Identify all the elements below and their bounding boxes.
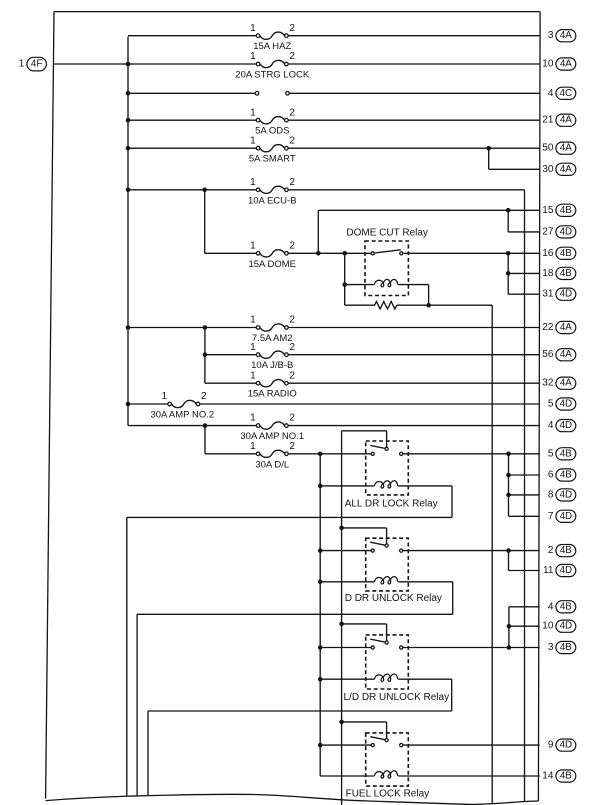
pin 7 (4D) [548, 510, 576, 522]
wire node up from DOME row [317, 210, 319, 253]
svg-text:31: 31 [542, 289, 554, 300]
pin 18 (4B) [542, 267, 576, 279]
pin 9 (4D) [548, 739, 576, 751]
fuse F5 10A ECU-B [248, 177, 297, 206]
wire DOME row left [205, 252, 257, 254]
svg-text:2: 2 [289, 441, 295, 452]
svg-text:21: 21 [542, 115, 554, 126]
svg-text:4B: 4B [560, 448, 572, 459]
svg-text:1: 1 [19, 59, 25, 70]
wire relay2 switch row left [320, 550, 371, 552]
pin 10 (4A) [542, 58, 576, 70]
svg-text:4B: 4B [560, 545, 572, 556]
bus relay feed vertical [341, 431, 343, 805]
svg-text:50: 50 [542, 143, 554, 154]
svg-text:2: 2 [289, 315, 295, 326]
relay K1 label [345, 499, 438, 510]
pin 22 (4A) [542, 321, 576, 333]
svg-text:7.5A AM2: 7.5A AM2 [252, 333, 293, 344]
svg-text:4A: 4A [560, 143, 572, 154]
relay U1 dashed outline [365, 241, 408, 296]
svg-text:15A HAZ: 15A HAZ [253, 41, 291, 52]
pin 27 (4D) [542, 226, 576, 238]
junction relay1 coil row [318, 484, 323, 489]
svg-text:22: 22 [542, 322, 554, 333]
junction bus/4C row [126, 91, 131, 96]
page border right [538, 12, 540, 801]
junction 10D row [507, 624, 512, 629]
junction ECU-B/DOME sub-bus [202, 188, 207, 193]
wire AM2 row left [128, 327, 256, 329]
svg-text:FUEL LOCK Relay: FUEL LOCK Relay [346, 788, 430, 799]
svg-text:5A ODS: 5A ODS [255, 126, 289, 137]
wire relay3 output [403, 647, 540, 649]
bus main vertical [127, 37, 129, 426]
svg-text:3: 3 [548, 30, 554, 41]
wire AMP2 row left [128, 403, 168, 405]
fuse F3 5A ODS [250, 107, 295, 136]
svg-text:15: 15 [542, 205, 554, 216]
svg-text:4B: 4B [560, 205, 572, 216]
svg-text:4C: 4C [560, 88, 573, 99]
wire AM2 row right [288, 327, 540, 329]
wire bus corner to AMP1 row [128, 425, 256, 427]
wire branch 4-3 [508, 607, 510, 648]
svg-text:4A: 4A [560, 164, 572, 175]
svg-text:2: 2 [548, 545, 554, 556]
relay K1 switch [370, 445, 403, 455]
svg-text:4D: 4D [560, 621, 573, 632]
wire relay4 feed drop [386, 722, 388, 739]
fuse F9 15A RADIO [248, 370, 297, 399]
svg-text:56: 56 [542, 349, 554, 360]
wire left loop2 down [136, 614, 138, 796]
svg-text:6: 6 [548, 470, 554, 481]
relay U1 switch contacts [371, 252, 403, 255]
svg-text:4B: 4B [560, 268, 572, 279]
junction relay3 feed [339, 622, 344, 627]
bus D/L vertical [319, 454, 321, 776]
relay K4 switch [370, 737, 403, 747]
junction JBB/sub-bus [203, 352, 208, 357]
svg-text:10: 10 [542, 59, 554, 70]
pin 15 (4B) [542, 204, 576, 216]
wire coil branch vertical [344, 253, 346, 305]
pin 8 (4D) [548, 489, 576, 501]
relay K3 label [344, 692, 450, 703]
wire relay2 feed [342, 527, 387, 529]
wire row 18 [508, 272, 540, 274]
wire relay4 output [403, 744, 540, 746]
junction bus/ODS [126, 118, 131, 123]
bus resistor output down [491, 305, 493, 804]
relay K3 L/D DR UNLOCK dashed outline [366, 635, 409, 689]
relay K4 coil [374, 771, 397, 778]
wire HAZ row right [288, 35, 540, 37]
svg-text:4D: 4D [560, 399, 573, 410]
svg-text:15A RADIO: 15A RADIO [248, 389, 297, 400]
junction bus/SMART [126, 146, 131, 151]
relay K2 label [345, 593, 442, 604]
junction 5B row [506, 452, 511, 457]
svg-text:DOME CUT Relay: DOME CUT Relay [346, 228, 428, 239]
svg-text:4B: 4B [560, 771, 572, 782]
wire open-slot row left [128, 92, 255, 94]
svg-text:4A: 4A [560, 322, 572, 333]
svg-text:20A STRG LOCK: 20A STRG LOCK [235, 70, 310, 81]
wire branch 5-7 [508, 454, 510, 517]
wire relay3 coil return right [451, 679, 453, 711]
svg-text:4: 4 [548, 601, 554, 612]
wire 4F feed [53, 63, 256, 65]
relay U1 DOME CUT Relay label [346, 228, 428, 239]
wire row 31 [508, 293, 540, 295]
wire JBB row right [288, 354, 540, 356]
wire AMP2 row right [200, 403, 540, 405]
svg-text:4: 4 [548, 88, 554, 99]
svg-text:2: 2 [289, 51, 295, 62]
fuse F8 10A J/B-B [250, 342, 295, 371]
fuse F2 20A STRG LOCK [235, 51, 310, 80]
pin 4 (4B) [548, 601, 576, 613]
pin 56 (4A) [542, 349, 576, 361]
wire relay2 coil out [398, 581, 453, 583]
svg-text:10A J/B-B: 10A J/B-B [251, 360, 293, 371]
wire ODS row right [288, 119, 540, 121]
fuse F1 15A HAZ [250, 23, 295, 52]
junction AMP1/sub-bus [203, 423, 208, 428]
wire branch 15-27 [507, 210, 509, 232]
wire RADIO row right [288, 382, 540, 384]
page break curve bottom [46, 794, 539, 804]
pin 2 (4B) [548, 545, 576, 557]
svg-text:L/D DR UNLOCK Relay: L/D DR UNLOCK Relay [344, 692, 450, 703]
pin 4 (4D) [548, 420, 576, 432]
svg-text:2: 2 [201, 391, 207, 402]
svg-text:2: 2 [289, 370, 295, 381]
svg-text:7: 7 [548, 511, 554, 522]
svg-text:4D: 4D [560, 740, 573, 751]
wire relay3 return / left loop3 [148, 710, 452, 712]
svg-text:30A AMP NO.2: 30A AMP NO.2 [150, 410, 214, 421]
pin 21 (4A) [542, 114, 576, 126]
svg-text:30A D/L: 30A D/L [255, 459, 289, 470]
svg-text:2: 2 [289, 177, 295, 188]
svg-text:4B: 4B [560, 470, 572, 481]
wire ECU-B row right [288, 189, 524, 191]
svg-text:D DR UNLOCK Relay: D DR UNLOCK Relay [345, 593, 442, 604]
bus sub vertical to D/L [204, 426, 206, 454]
svg-text:1: 1 [250, 240, 256, 251]
svg-text:10A ECU-B: 10A ECU-B [248, 195, 297, 206]
wire D/L row left [205, 453, 256, 455]
svg-text:1: 1 [162, 391, 168, 402]
wire branch 16-31 [507, 253, 509, 294]
wire resistor row right [397, 304, 492, 306]
junction 6 row [506, 473, 511, 478]
svg-text:1: 1 [250, 135, 256, 146]
svg-text:18: 18 [542, 268, 554, 279]
svg-text:4D: 4D [560, 565, 573, 576]
relay K4 label [346, 788, 430, 799]
svg-text:1: 1 [250, 370, 256, 381]
relay K2 D DR UNLOCK dashed outline [366, 538, 409, 591]
wire relay1 return / left loop1 [127, 516, 452, 518]
pin 50 (4A) [542, 142, 576, 154]
wire RADIO row left [205, 382, 256, 384]
junction relay2 feed [339, 526, 344, 531]
svg-text:4A: 4A [560, 378, 572, 389]
wire relay1 feed [342, 430, 387, 432]
pin 32 (4A) [542, 377, 576, 389]
pin 5 (4B) [548, 448, 576, 460]
junction 18 row [506, 271, 511, 276]
wire coil row right [398, 284, 428, 286]
junction SMART/30 branch [486, 146, 491, 151]
wire relay4 switch row left [320, 744, 371, 746]
svg-text:4F: 4F [31, 59, 42, 70]
svg-text:4D: 4D [560, 511, 573, 522]
fuse F7 7.5A AM2 [250, 315, 295, 344]
junction 16 row [506, 251, 511, 256]
junction 2 row [506, 548, 511, 553]
junction relay4 feed [339, 720, 344, 725]
svg-text:4B: 4B [560, 642, 572, 653]
wire row 6 [509, 474, 540, 476]
wire relay3 coil out [398, 678, 452, 680]
svg-text:4A: 4A [560, 115, 572, 126]
page border top [54, 11, 540, 13]
junction bus/STRG [126, 62, 131, 67]
junction bus/AMP NO.2 [126, 402, 131, 407]
junction AM2/sub-bus [203, 325, 208, 330]
svg-text:1: 1 [250, 51, 256, 62]
svg-text:1: 1 [250, 413, 256, 424]
pin 5 (4D) [548, 398, 576, 410]
junction relay3 switch row [318, 645, 323, 650]
wire relay4 coil out to pin [398, 775, 540, 777]
junction relay4 switch row [318, 743, 323, 748]
wire relay2 coil row [320, 581, 374, 583]
wire relay3 feed [342, 623, 387, 625]
pin 4 (4C) [548, 87, 576, 99]
wire row 11 [509, 570, 540, 572]
svg-text:1: 1 [250, 107, 256, 118]
wire relay3 feed drop [386, 624, 388, 641]
junction D/L bus [318, 452, 323, 457]
wire left loop1 down [126, 517, 128, 796]
wire row 7 [509, 515, 540, 517]
svg-text:2: 2 [289, 413, 295, 424]
svg-text:32: 32 [542, 378, 554, 389]
svg-text:8: 8 [548, 489, 554, 500]
wire relay4 feed [342, 721, 387, 723]
relay K2 coil [374, 577, 397, 584]
junction relay3 coil row [318, 677, 323, 682]
fuse F12 30A D/L [250, 441, 295, 470]
svg-text:5: 5 [548, 448, 554, 459]
relay K2 switch [370, 542, 403, 552]
svg-text:2: 2 [289, 23, 295, 34]
svg-text:4B: 4B [560, 601, 572, 612]
pin 14 (4B) [542, 770, 576, 782]
wire row 8 [509, 494, 540, 496]
wire coil-resistor right link [428, 285, 430, 306]
svg-text:4D: 4D [560, 289, 573, 300]
wire DOME row to relay [288, 252, 371, 254]
svg-text:1: 1 [250, 315, 256, 326]
junction relay2 switch row [318, 548, 323, 553]
bus sub vertical AM2-RADIO [204, 328, 206, 384]
bus sub vertical to DOME [204, 190, 206, 254]
svg-text:4D: 4D [560, 226, 573, 237]
wire relay2 coil return right [452, 582, 454, 615]
pin 3 (4A) [548, 30, 576, 42]
wire relay2 output [403, 550, 540, 552]
wire row 27 [508, 231, 540, 233]
svg-text:2: 2 [289, 135, 295, 146]
relay K3 coil [374, 674, 397, 681]
svg-text:5A SMART: 5A SMART [249, 154, 296, 165]
svg-text:2: 2 [289, 240, 295, 251]
connector pin 1 (4F) [19, 57, 47, 71]
svg-text:1: 1 [250, 23, 256, 34]
svg-text:9: 9 [548, 740, 554, 751]
wire SMART row right [288, 147, 540, 149]
wire relay3 switch row left [320, 647, 371, 649]
relay K4 FUEL LOCK dashed outline [366, 733, 409, 786]
wire relay1 coil return right [451, 486, 453, 518]
fuse F6 15A DOME [248, 240, 296, 269]
wire row 4B [509, 606, 540, 608]
junction DOME/coil branch [342, 251, 347, 256]
relay K1 ALL DR LOCK dashed outline [366, 441, 409, 495]
relay U1 coil L1 [374, 279, 397, 286]
junction bus/AM2 [126, 325, 131, 330]
svg-text:ALL DR LOCK Relay: ALL DR LOCK Relay [345, 499, 438, 510]
junction DOME/15 branch [316, 251, 321, 256]
svg-text:1: 1 [250, 342, 256, 353]
fuse F4 5A SMART [249, 135, 296, 164]
wire relay2 feed drop [386, 528, 388, 544]
junction 15/27 branch [506, 208, 511, 213]
wire branch down to 30 [488, 148, 490, 169]
wire relay3 coil row [320, 678, 374, 680]
junction relay2 coil row [318, 580, 323, 585]
svg-text:16: 16 [542, 248, 554, 259]
pin 3 (4B) [548, 641, 576, 653]
pin 6 (4B) [548, 469, 576, 481]
wire ECU-B row left [128, 189, 256, 191]
svg-text:2: 2 [289, 342, 295, 353]
pin 11 (4D) [543, 564, 576, 576]
wire relay2 return / left loop2 [137, 613, 453, 615]
svg-text:11: 11 [543, 565, 554, 576]
wire AMP1 row right [288, 425, 540, 427]
relay K3 switch [370, 639, 403, 649]
svg-text:1: 1 [250, 177, 256, 188]
pin 16 (4B) [542, 247, 576, 259]
wire DOME relay output [403, 252, 540, 254]
svg-text:4A: 4A [560, 59, 572, 70]
svg-text:4D: 4D [560, 489, 573, 500]
wire row 15 [318, 209, 539, 211]
bus ECU-B down right side [524, 190, 526, 802]
svg-text:2: 2 [289, 107, 295, 118]
svg-text:4A: 4A [560, 30, 572, 41]
junction bus/ECU-B [126, 188, 131, 193]
fuse F10 30A AMP NO.2 [150, 391, 214, 420]
wire STRG row right [288, 63, 540, 65]
open fuse slot contacts [255, 92, 289, 96]
wire row 30 [489, 168, 540, 170]
svg-text:14: 14 [542, 771, 554, 782]
junction 8 row [506, 493, 511, 498]
wire relay1 output [403, 453, 540, 455]
relay U1 switch blade [374, 250, 400, 253]
pin 31 (4D) [542, 288, 576, 300]
wire JBB row left [205, 354, 256, 356]
resistor R1 [345, 301, 397, 309]
wire left loop3 down [147, 711, 149, 796]
wire open-slot row right [289, 92, 539, 94]
wire SMART row left [128, 147, 256, 149]
wire D/L row to relay [288, 453, 371, 455]
wire branch 2-11 [508, 551, 510, 571]
svg-text:4D: 4D [560, 420, 573, 431]
svg-text:27: 27 [542, 226, 554, 237]
svg-text:4B: 4B [560, 248, 572, 259]
svg-text:30: 30 [542, 164, 554, 175]
page border left (slanted) [46, 12, 54, 799]
wire relay1 coil row [320, 485, 374, 487]
fuse F11 30A AMP NO.1 [240, 413, 304, 442]
wire relay1 feed drop [386, 431, 388, 447]
junction 3B row [507, 645, 512, 650]
wire coil row left [345, 284, 375, 286]
pin 10 (4D) [542, 620, 576, 632]
svg-text:3: 3 [548, 642, 554, 653]
junction resistor output [426, 303, 431, 308]
svg-text:4A: 4A [560, 349, 572, 360]
wire row 10D [509, 625, 540, 627]
wire relay1 coil out [398, 485, 452, 487]
svg-text:4: 4 [548, 420, 554, 431]
svg-text:10: 10 [542, 621, 554, 632]
relay K1 coil [374, 481, 397, 488]
wire relay4 coil row left [320, 775, 374, 777]
svg-text:5: 5 [548, 399, 554, 410]
junction coil row [342, 282, 347, 287]
svg-text:15A DOME: 15A DOME [248, 259, 296, 270]
wire HAZ row left [128, 35, 256, 37]
svg-text:1: 1 [250, 441, 256, 452]
wire ODS row left [128, 119, 256, 121]
pin 30 (4A) [542, 163, 576, 175]
